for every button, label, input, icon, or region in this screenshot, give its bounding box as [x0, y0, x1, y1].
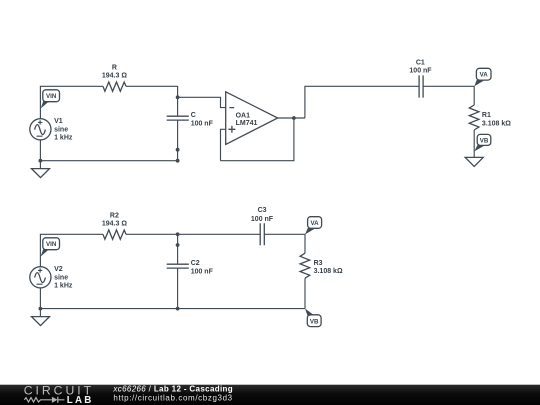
svg-text:100 nF: 100 nF	[251, 216, 274, 223]
svg-text:http://circuitlab.com/cbzg3d3: http://circuitlab.com/cbzg3d3	[113, 394, 232, 403]
resistor R3	[300, 253, 310, 278]
footer bar	[0, 385, 540, 405]
label R3 name	[314, 260, 323, 267]
svg-text:1 kHz: 1 kHz	[54, 134, 73, 141]
label R1 value	[482, 120, 511, 127]
svg-text:VB: VB	[310, 318, 319, 325]
svg-text:xc66266 / Lab 12 - Cascading: xc66266 / Lab 12 - Cascading	[112, 385, 233, 394]
wire ground return V1	[40, 160, 177, 162]
svg-text:C2: C2	[191, 260, 200, 267]
node A junction dot	[176, 95, 180, 99]
label R name	[112, 64, 117, 71]
footer url line	[113, 394, 232, 403]
capacitor C1	[419, 75, 423, 97]
wire V2 top to rail	[40, 234, 103, 266]
svg-text:3.108 kΩ: 3.108 kΩ	[482, 120, 511, 127]
svg-text:V2: V2	[54, 266, 63, 273]
svg-text:sine: sine	[54, 274, 68, 281]
wire feedback bottom	[221, 118, 294, 161]
svg-text:R1: R1	[482, 112, 491, 119]
junction dot V2 ground	[39, 307, 43, 311]
junction dot node A ground corner	[176, 159, 180, 163]
label C3 value	[251, 216, 274, 223]
junction dot C2 bottom	[176, 307, 180, 311]
wire C bottom lead	[177, 120, 179, 161]
wire V1 top to rail	[40, 86, 103, 118]
junction dot C bottom	[176, 148, 180, 152]
label C2 value	[191, 268, 214, 275]
voltage source V2	[30, 267, 51, 288]
capacitor C2	[167, 264, 189, 268]
logo LAB text	[67, 395, 94, 405]
wire op-amp output	[278, 117, 305, 119]
svg-text:V1: V1	[54, 118, 63, 125]
wire R3 to rail	[304, 278, 306, 308]
logo resistor squiggle	[24, 398, 52, 402]
svg-text:R3: R3	[314, 260, 323, 267]
svg-text:VA: VA	[480, 72, 489, 79]
label R1 name	[482, 112, 491, 119]
junction dot output	[292, 116, 296, 120]
wire R to node A	[126, 86, 178, 116]
svg-text:194.3 Ω: 194.3 Ω	[102, 73, 127, 80]
svg-text:100 nF: 100 nF	[409, 67, 432, 74]
ground V2	[32, 317, 50, 326]
label C1 name	[416, 59, 425, 66]
svg-text:VIN: VIN	[46, 241, 57, 248]
label V2 freq	[54, 282, 73, 289]
resistor R	[103, 82, 126, 91]
capacitor C	[167, 116, 189, 120]
flag VB bottom	[305, 309, 321, 327]
capacitor C3	[260, 223, 264, 245]
junction dot C2 top	[176, 243, 180, 247]
svg-text:sine: sine	[54, 126, 68, 133]
label R2 name	[110, 212, 119, 219]
wire op-amp plus stub	[221, 129, 226, 160]
svg-text:C3: C3	[258, 207, 267, 214]
junction dot node B	[176, 232, 180, 236]
svg-text:LM741: LM741	[236, 120, 258, 127]
junction dot V1 ground	[39, 159, 43, 163]
svg-text:R2: R2	[110, 212, 119, 219]
label C value	[191, 120, 214, 127]
label V2 name	[54, 266, 63, 273]
label R3 value	[314, 268, 343, 275]
svg-text:VA: VA	[311, 220, 320, 227]
flag VB top	[474, 134, 491, 151]
wire R1 to ground	[473, 130, 475, 157]
flag VIN bottom	[41, 238, 60, 257]
svg-text:C: C	[191, 112, 196, 119]
svg-text:LAB: LAB	[67, 395, 94, 405]
label V1 name	[54, 118, 63, 125]
wire output to C1	[305, 86, 419, 118]
wire V1 bottom	[39, 140, 41, 169]
wire C1 to R1	[423, 86, 474, 105]
label C2 name	[191, 260, 200, 267]
label C1 value	[409, 67, 432, 74]
op-amp OA1	[226, 92, 278, 145]
wire R2 to C3	[126, 233, 260, 235]
wire node A to op-amp minus input	[178, 97, 226, 107]
flag VA top	[474, 68, 491, 86]
svg-text:VIN: VIN	[46, 93, 57, 100]
svg-text:100 nF: 100 nF	[191, 120, 214, 127]
svg-text:OA1: OA1	[236, 112, 251, 119]
wire ground return V2	[40, 308, 305, 310]
svg-text:C1: C1	[416, 59, 425, 66]
wire C2 bottom lead	[177, 268, 179, 309]
logo CIRCUIT text	[24, 384, 94, 398]
wire V2 bottom	[39, 288, 41, 317]
wire C2 top lead	[177, 234, 179, 264]
svg-text:194.3 Ω: 194.3 Ω	[102, 221, 127, 228]
svg-text:R: R	[112, 64, 117, 71]
svg-text:100 nF: 100 nF	[191, 268, 214, 275]
ground R1	[465, 157, 483, 166]
label C3 name	[258, 207, 267, 214]
label OA1 name	[236, 112, 251, 119]
label OA1 part	[236, 120, 258, 127]
flag VA bottom	[305, 217, 322, 235]
svg-text:1 kHz: 1 kHz	[54, 282, 73, 289]
resistor R2	[103, 230, 126, 239]
svg-text:VB: VB	[480, 137, 489, 144]
ground V1	[32, 169, 50, 178]
logo diode	[52, 397, 65, 403]
wire C3 to R3	[264, 234, 305, 253]
label V1 type	[54, 126, 68, 133]
svg-text:3.108 kΩ: 3.108 kΩ	[314, 268, 343, 275]
footer title line	[112, 385, 233, 394]
label R2 value	[102, 221, 127, 228]
label R value	[102, 73, 127, 80]
flag VIN top	[41, 90, 60, 109]
resistor R1	[469, 105, 479, 130]
voltage source V1	[30, 119, 51, 140]
label C name	[191, 112, 196, 119]
label V2 type	[54, 274, 68, 281]
label V1 freq	[54, 134, 73, 141]
